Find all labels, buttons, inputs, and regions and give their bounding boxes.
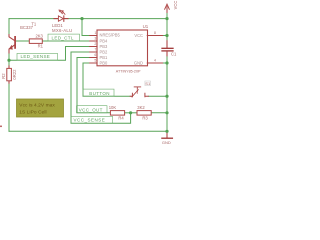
resistor R1 xyxy=(29,39,42,44)
wire emitter to sense junction xyxy=(8,53,10,66)
switch S1 xyxy=(130,87,148,97)
svg-text:VCC: VCC xyxy=(173,1,178,10)
svg-text:PB0: PB0 xyxy=(100,61,108,66)
svg-text:3: 3 xyxy=(94,37,96,41)
wire left rail collector segment xyxy=(8,19,10,35)
svg-text:2: 2 xyxy=(94,42,96,46)
svg-text:1S LiPo Cell: 1S LiPo Cell xyxy=(19,109,46,115)
junction bottom rail corner xyxy=(165,130,168,133)
junction top rail at VCC xyxy=(165,17,168,20)
svg-text:NRES/PB5: NRES/PB5 xyxy=(100,33,121,38)
svg-text:PB4: PB4 xyxy=(100,39,108,44)
resistor R4 xyxy=(110,111,124,116)
svg-text:PB3: PB3 xyxy=(100,44,108,49)
ground GND symbol xyxy=(166,133,168,137)
svg-text:C1: C1 xyxy=(171,52,177,57)
svg-text:BC337: BC337 xyxy=(20,25,33,30)
svg-text:PB1: PB1 xyxy=(100,55,108,60)
svg-text:0R22: 0R22 xyxy=(12,69,17,80)
IC U1 right pin stubs xyxy=(147,36,162,64)
IC U1 left pin stubs xyxy=(90,36,97,64)
svg-text:8: 8 xyxy=(154,31,156,35)
label VCC_SENSE xyxy=(71,116,113,123)
note box Vcc is 4.2V max xyxy=(17,99,64,117)
svg-text:R1: R1 xyxy=(38,44,44,49)
svg-text:PB2: PB2 xyxy=(100,50,108,55)
IC U1 box xyxy=(97,30,148,66)
wire left rail below R2 xyxy=(8,83,10,131)
svg-text:R2: R2 xyxy=(1,73,6,79)
svg-text:2K3: 2K3 xyxy=(35,34,43,39)
transistor T1 xyxy=(9,35,15,54)
svg-text:GND: GND xyxy=(162,140,171,145)
svg-text:6: 6 xyxy=(94,53,96,57)
svg-text:R3: R3 xyxy=(142,116,148,121)
junction divider rail xyxy=(165,111,168,114)
svg-text:4: 4 xyxy=(154,59,156,63)
svg-text:BUTTON: BUTTON xyxy=(89,91,110,96)
wire R3 to rail xyxy=(151,112,168,114)
wire LED_SENSE row xyxy=(9,47,90,61)
label VCC_OUT xyxy=(77,106,108,113)
svg-text:3K2: 3K2 xyxy=(137,105,145,110)
wire pin1 drop from top rail xyxy=(82,19,90,36)
svg-text:MX6-ALU: MX6-ALU xyxy=(52,28,72,33)
svg-text:7: 7 xyxy=(94,48,96,52)
VCC supply arrow xyxy=(165,4,170,12)
junction emitter sense xyxy=(7,59,10,62)
label LED_SENSE xyxy=(17,53,58,60)
junction top rail at pin1 drop xyxy=(80,17,83,20)
svg-text:LED_SENSE: LED_SENSE xyxy=(21,54,51,59)
wire pin8 to rail xyxy=(162,35,167,37)
LED LED1 pins xyxy=(54,18,68,20)
svg-text:ATTINY85-20P: ATTINY85-20P xyxy=(116,69,141,73)
svg-text:VCC_OUT: VCC_OUT xyxy=(79,107,103,112)
resistor R2 pin stubs xyxy=(8,66,10,83)
LED LED1 xyxy=(58,10,65,21)
svg-text:1: 1 xyxy=(94,31,96,35)
wire right rail upper xyxy=(166,12,168,40)
svg-text:VCC_SENSE: VCC_SENSE xyxy=(74,118,106,123)
junction divider mid xyxy=(129,111,132,114)
wire PB0 to BUTTON xyxy=(83,63,130,96)
svg-text:R4: R4 xyxy=(118,116,124,121)
svg-text:VCC: VCC xyxy=(134,33,143,38)
svg-text:LED_CTL: LED_CTL xyxy=(52,36,74,41)
junction pin4 xyxy=(165,61,168,64)
wire base to R1 xyxy=(16,40,29,42)
artifact red dot bottom left xyxy=(0,125,2,127)
resistor R3 xyxy=(137,111,151,116)
junction button row xyxy=(165,95,168,98)
wire pin4 to rail xyxy=(162,62,167,64)
wire right rail lower xyxy=(166,56,168,134)
label LED_CTL xyxy=(48,34,80,41)
wire PB2 to VCC_SENSE xyxy=(71,52,131,123)
resistor R2 xyxy=(7,68,12,80)
svg-text:10K: 10K xyxy=(109,105,117,110)
wire PB1 to VCC_OUT xyxy=(77,58,111,113)
svg-text:5: 5 xyxy=(94,59,96,63)
wire LED_CTL row xyxy=(42,40,90,42)
wire top VCC rail horizontal xyxy=(9,18,167,20)
svg-text:U1: U1 xyxy=(143,24,149,29)
switch S1 name xyxy=(145,81,151,86)
wire divider mid segment xyxy=(125,112,137,114)
capacitor C1 xyxy=(166,41,168,48)
svg-text:Vcc is 4.2V max: Vcc is 4.2V max xyxy=(19,102,55,108)
wire button to rail xyxy=(148,95,167,97)
svg-text:S1: S1 xyxy=(145,81,151,86)
svg-text:GND: GND xyxy=(134,60,143,65)
wire bottom rail xyxy=(9,130,167,132)
label BUTTON xyxy=(83,89,114,96)
junction pin8 xyxy=(165,34,168,37)
